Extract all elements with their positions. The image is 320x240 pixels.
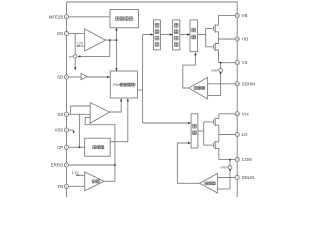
svg-text:ERRO: ERRO — [51, 163, 64, 168]
svg-text:1.2V: 1.2V — [76, 42, 84, 46]
svg-text:VSS: VSS — [55, 128, 64, 133]
svg-text:HO: HO — [242, 37, 249, 42]
svg-text:FB: FB — [58, 184, 64, 189]
svg-text:SDLIN: SDLIN — [242, 175, 255, 180]
svg-text:EN: EN — [57, 31, 63, 36]
svg-text:VREF: VREF — [211, 69, 219, 73]
svg-text:LO: LO — [242, 132, 248, 137]
svg-text:Iref: Iref — [69, 55, 73, 59]
svg-text:SS: SS — [57, 112, 63, 117]
svg-text:VS: VS — [242, 60, 248, 65]
svg-text:VB: VB — [242, 13, 248, 18]
svg-text:COM: COM — [242, 157, 252, 162]
svg-text:VREF: VREF — [220, 166, 228, 170]
svg-text:MFE2B: MFE2B — [49, 14, 63, 19]
svg-text:Vcc: Vcc — [242, 111, 250, 116]
svg-text:1.2V: 1.2V — [72, 171, 80, 175]
svg-text:SD: SD — [57, 75, 63, 80]
svg-text:SDHIN: SDHIN — [242, 81, 255, 86]
svg-text:CP: CP — [57, 145, 63, 150]
